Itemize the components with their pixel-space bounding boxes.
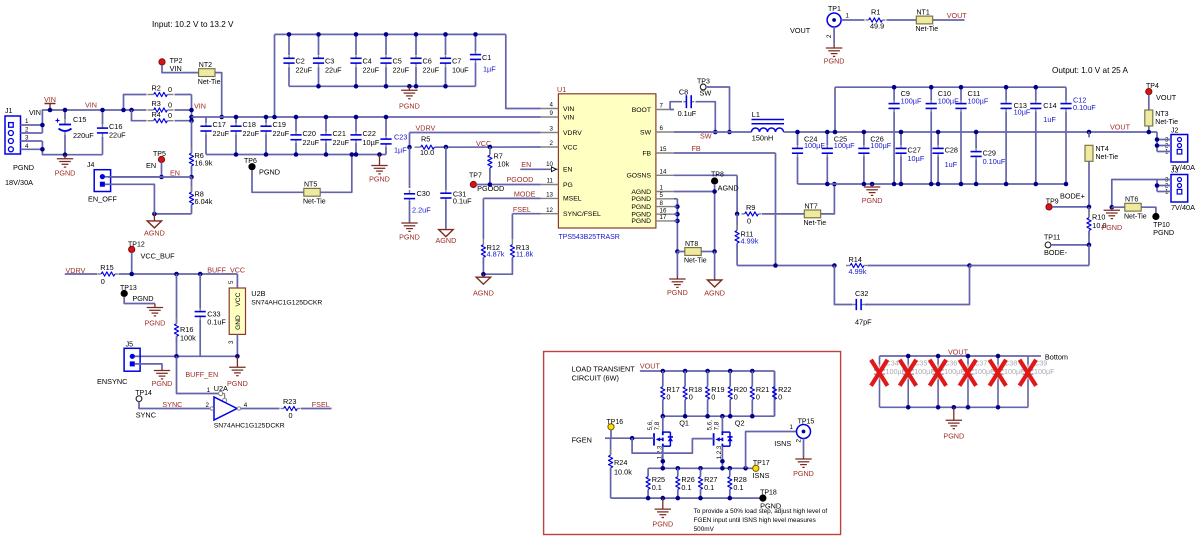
svg-text:VOUT: VOUT <box>947 11 968 20</box>
junction C29 top junction <box>974 130 979 135</box>
junction C10 bottom junction <box>929 182 934 187</box>
svg-text:22uF: 22uF <box>109 131 126 140</box>
wire TP11 wire <box>1051 244 1089 246</box>
junction C35 bottom junction <box>906 405 911 410</box>
wire R15 to BUFF_VCC <box>119 273 238 275</box>
svg-text:22uF: 22uF <box>303 138 320 147</box>
label TP8 name <box>718 184 739 193</box>
svg-text:VOUT: VOUT <box>1156 93 1177 102</box>
resistor R11 <box>735 224 739 249</box>
label net VOUT bottom <box>948 348 969 357</box>
label TP1 name <box>790 26 811 35</box>
wire C11 bottom lead <box>960 112 962 185</box>
label J1 pin 4 <box>25 143 29 150</box>
label U2A ref <box>214 384 228 393</box>
junction C37 bottom junction <box>966 405 971 410</box>
wire VIN top bank riser <box>274 34 276 117</box>
label net MODE <box>514 190 536 199</box>
svg-text:0.1: 0.1 <box>652 483 662 492</box>
label TP6 name <box>259 168 280 177</box>
ground symbol AGND under U1 <box>707 278 721 287</box>
U1 pin 2 VCC <box>541 140 578 151</box>
wire EN wire <box>108 176 192 178</box>
label U2B pin5 number <box>228 280 235 284</box>
label net VOUT at TP1 <box>947 11 968 20</box>
svg-text:22uF: 22uF <box>333 138 350 147</box>
svg-text:100µF: 100µF <box>870 141 891 150</box>
wire R27 top lead <box>700 468 702 476</box>
svg-text:220uF: 220uF <box>73 131 94 140</box>
svg-text:PG: PG <box>563 182 573 189</box>
wire R11 bottom lead <box>736 244 738 266</box>
svg-text:SYNC/FSEL: SYNC/FSEL <box>563 211 601 218</box>
wire C5 bottom lead <box>385 67 387 87</box>
svg-text:0.1: 0.1 <box>681 483 691 492</box>
svg-text:R24: R24 <box>614 458 627 467</box>
resistor R13 <box>510 239 514 264</box>
U1 pin 17 PGND <box>631 214 674 225</box>
svg-text:9: 9 <box>550 110 554 117</box>
junction C18 top junction <box>234 115 239 120</box>
junction NT8 right junction <box>712 249 717 254</box>
capacitor C25 100µF <box>822 145 833 156</box>
junction C22 bottom junction <box>354 152 359 157</box>
junction TP9 junction <box>1087 205 1092 210</box>
wire C2 bottom lead <box>288 67 290 87</box>
svg-text:22uF: 22uF <box>325 66 342 75</box>
junction Q1 source bus junction <box>661 466 666 471</box>
wire TP15 stem <box>803 439 805 458</box>
label TP15 ref <box>798 419 815 426</box>
junction C25 top junction <box>825 130 830 135</box>
label J3 pin1 <box>1165 189 1169 196</box>
capacitor C39 100uF (not installed) <box>1022 356 1055 407</box>
wire J1 pin2 <box>21 132 43 134</box>
svg-text:10k: 10k <box>498 160 510 169</box>
wire NT8 left wire <box>677 251 684 253</box>
ground symbol PGND under J5 <box>154 369 170 379</box>
wire C27 bottom lead <box>900 156 902 184</box>
svg-text:10.0: 10.0 <box>420 148 434 157</box>
label Q2 pins 78 <box>713 421 720 430</box>
svg-text:NT1: NT1 <box>917 9 930 16</box>
junction NT6 left junction <box>1110 205 1115 210</box>
svg-text:TP9: TP9 <box>1046 199 1059 206</box>
wire TP9 wire <box>1052 206 1089 208</box>
svg-text:SW: SW <box>700 132 712 141</box>
wire C23 top lead <box>385 117 387 136</box>
junction TP8 AGND junction <box>712 189 717 194</box>
junction C9 top junction <box>892 85 897 90</box>
junction VCC R7 junction <box>488 145 493 150</box>
resistor R2 <box>148 92 174 96</box>
capacitor C1 1uF <box>470 52 481 63</box>
label Q2 ref <box>735 419 745 428</box>
label TP13 ref <box>120 285 137 292</box>
svg-text:GOSNS: GOSNS <box>626 173 651 180</box>
wire C31 lead bottom <box>445 200 447 229</box>
label TP15 pin1 number <box>790 424 794 431</box>
svg-text:C21: C21 <box>333 129 346 138</box>
wire NT3 to rail <box>1148 126 1150 132</box>
capacitor C23 1uF <box>380 136 391 147</box>
label TP18 name <box>760 501 781 510</box>
resistor R18 <box>683 387 687 400</box>
svg-text:2: 2 <box>206 402 210 409</box>
label AGND U1 text <box>704 289 725 298</box>
wire AGND drop <box>714 252 716 279</box>
not-installed mark X over C39 <box>1020 360 1037 386</box>
svg-text:EN: EN <box>563 167 573 174</box>
wire C21 bottom lead <box>325 143 327 155</box>
label TP10 ref <box>1153 222 1170 229</box>
svg-text:C7: C7 <box>452 57 461 66</box>
ground symbol PGND bottom caps <box>946 407 962 428</box>
label C27 value <box>908 154 925 163</box>
junction C11 bottom junction <box>959 182 964 187</box>
wire C12 top lead <box>1065 87 1067 100</box>
svg-text:PGND: PGND <box>13 163 34 172</box>
not-installed mark X over C37 <box>960 360 977 386</box>
connector J5 <box>124 348 140 371</box>
svg-text:U1: U1 <box>557 85 566 94</box>
ground symbol PGND under top bank <box>401 86 417 98</box>
label R12 value <box>487 250 505 259</box>
svg-text:C17: C17 <box>213 120 226 129</box>
svg-text:PGND: PGND <box>631 196 651 203</box>
wire NT6 left wire <box>1112 206 1125 208</box>
junction R14 C32 right junction <box>967 263 972 268</box>
label C24 value <box>804 141 825 150</box>
label R16 ref <box>180 325 193 334</box>
U1 pin 4 VIN <box>541 102 575 113</box>
wire C24 top lead <box>797 132 799 145</box>
junction C8 SW junction <box>713 130 718 135</box>
label R9 value <box>747 217 751 226</box>
label PGND U1 text <box>667 288 688 297</box>
svg-text:PGND: PGND <box>862 196 883 205</box>
ground symbol PGND under U2B <box>229 356 245 375</box>
wire R16 lead top <box>176 274 178 323</box>
svg-text:1µF: 1µF <box>394 145 407 154</box>
wire C32 loop left <box>834 266 852 305</box>
label net VIN at J1 <box>29 108 41 117</box>
test point TP1 <box>827 13 841 27</box>
svg-text:6.04k: 6.04k <box>195 197 213 206</box>
junction C4 top junction <box>354 32 359 37</box>
svg-text:PGND: PGND <box>145 319 166 328</box>
label J1 PGND <box>13 163 34 172</box>
wire R27 bottom lead <box>700 490 702 499</box>
op-amp U1 TPS543B25TRASR body <box>557 85 656 241</box>
label net BUFF_VCC <box>207 266 245 275</box>
svg-text:SW: SW <box>640 129 652 136</box>
wire C12 bottom lead <box>1065 112 1067 185</box>
wire Q2 gate loop <box>632 438 714 453</box>
wire load PGND bus <box>611 497 763 499</box>
capacitor C33 0.1uF <box>195 309 206 320</box>
svg-text:PGND: PGND <box>1153 228 1174 237</box>
svg-text:2: 2 <box>550 140 554 147</box>
junction NT7 bus junction <box>832 182 837 187</box>
svg-text:C23: C23 <box>394 133 407 142</box>
svg-text:NT5: NT5 <box>304 182 317 189</box>
label J2 pin2 <box>1165 143 1169 150</box>
svg-text:PGND: PGND <box>793 469 814 478</box>
label C1 value <box>483 65 496 74</box>
wire R24 corner <box>610 438 612 455</box>
wire C11 top lead <box>960 87 962 100</box>
wire PGOOD wire <box>477 184 541 186</box>
wire FGEN wire <box>605 437 611 439</box>
junction R26 bottom junction <box>676 496 681 501</box>
connector J1 <box>5 108 21 154</box>
wire C14 bottom lead <box>1035 112 1037 185</box>
resistor R8 <box>189 186 193 211</box>
label C3 ref <box>325 57 334 66</box>
junction C15 top junction <box>63 108 68 113</box>
wire R10 bottom lead <box>1088 231 1090 245</box>
svg-text:1: 1 <box>25 118 29 125</box>
label C30 ref <box>417 189 430 198</box>
junction NT4 rail junction <box>1087 130 1092 135</box>
label J3 ref <box>1171 168 1179 175</box>
label U2A pin4 number <box>244 402 248 409</box>
wire R17 top lead <box>662 371 664 387</box>
label C19 value <box>273 129 290 138</box>
svg-text:PGOOD: PGOOD <box>507 175 534 184</box>
junction TP11 junction <box>1087 243 1092 248</box>
svg-text:VCC: VCC <box>235 292 242 306</box>
junction C22 top junction <box>354 115 359 120</box>
label net PGOOD <box>507 175 534 184</box>
svg-text:500mV: 500mV <box>694 526 715 533</box>
junction C14 bottom junction <box>1034 182 1039 187</box>
svg-text:GND: GND <box>235 315 242 330</box>
wire VIN rail <box>65 109 132 111</box>
wire FSEL corner down <box>511 214 513 239</box>
wire R11 top lead <box>736 214 738 230</box>
label C24 ref <box>804 135 817 144</box>
wire J2 feed <box>1156 132 1158 152</box>
label net VDRV <box>416 123 436 132</box>
ground symbol PGND under U1 <box>669 276 685 287</box>
svg-text:R3: R3 <box>152 99 161 108</box>
U1 pin 11 PG <box>541 178 573 189</box>
svg-text:R4: R4 <box>152 110 161 119</box>
label R21 value <box>756 393 760 402</box>
wire J3 to NT6 <box>1112 180 1157 208</box>
svg-text:4: 4 <box>244 402 248 409</box>
label C17 value <box>213 129 230 138</box>
test point TP17 <box>753 465 759 471</box>
inductor L1 150nH <box>752 120 785 133</box>
label load transient title line1 <box>572 365 636 374</box>
label TP8 ref <box>711 172 724 179</box>
wire J2 pin2 wire <box>1157 145 1171 147</box>
resistor R24 <box>609 449 613 474</box>
junction C21 bottom junction <box>324 152 329 157</box>
junction VIN flag junction <box>48 108 53 113</box>
svg-text:0: 0 <box>747 217 751 226</box>
svg-text:100µF: 100µF <box>968 97 989 106</box>
label R27 value <box>704 483 714 492</box>
wire PGND drop <box>676 252 678 277</box>
wire R21 top lead <box>751 371 753 387</box>
label C8 ref <box>679 88 688 97</box>
ground symbol AGND under R8 <box>147 214 161 228</box>
wire Q1 drain lead <box>662 416 664 432</box>
wire FB riser <box>775 153 777 266</box>
capacitor C34 100uF (not installed) <box>874 356 907 407</box>
junction VDRV R5 junction <box>407 145 412 150</box>
wire FGEN to Q1 gate <box>611 437 654 439</box>
wire BODE to FB <box>1088 245 1090 266</box>
wire C22 top lead <box>355 117 357 132</box>
resistor R17 <box>661 387 665 400</box>
junction NT2 junction <box>219 115 224 120</box>
wire R22 bottom lead <box>774 400 776 417</box>
wire C26 top lead <box>863 132 865 145</box>
net-tie NT5 <box>303 182 326 206</box>
label L1 value <box>752 134 774 143</box>
wire R4 branch <box>132 110 147 121</box>
wire R18 top lead <box>684 371 686 387</box>
label PGND bottom text <box>943 432 964 441</box>
capacitor C3 22uF <box>313 55 324 66</box>
label R6 ref <box>195 151 204 160</box>
connector J3 <box>1171 175 1188 203</box>
label R23 ref <box>283 397 296 406</box>
label U2A part <box>214 423 285 430</box>
label R10 value <box>1092 221 1106 230</box>
svg-text:TP15: TP15 <box>798 419 815 426</box>
wire R17 bottom lead <box>662 400 664 417</box>
svg-text:MODE: MODE <box>514 190 536 199</box>
label TP7 ref <box>469 173 482 180</box>
label C29 value <box>983 157 1006 166</box>
svg-text:Net-Tie: Net-Tie <box>684 258 707 265</box>
wire FB bus <box>737 265 834 267</box>
svg-text:AGND: AGND <box>631 189 651 196</box>
label U2A pin1 number <box>207 387 211 394</box>
test point TP16 <box>608 424 614 430</box>
svg-text:10µF: 10µF <box>908 154 925 163</box>
label R25 ref <box>652 475 665 484</box>
svg-text:3: 3 <box>228 340 235 344</box>
svg-text:TP14: TP14 <box>135 390 152 397</box>
ground symbol PGND under TP1 <box>826 45 842 56</box>
svg-text:Net-Tie: Net-Tie <box>1155 119 1178 126</box>
svg-text:R2: R2 <box>152 84 161 93</box>
junction C19 top junction <box>264 115 269 120</box>
svg-text:TP1: TP1 <box>828 6 841 13</box>
U1 pin 8 PGND <box>631 200 674 211</box>
svg-text:TP17: TP17 <box>753 460 770 467</box>
label R4 value <box>168 111 172 120</box>
label TP1 pin1 number <box>846 13 850 20</box>
wire R20 top lead <box>729 371 731 387</box>
label R7 ref <box>494 152 503 161</box>
label J4 name <box>88 195 117 204</box>
wire C6 bottom lead <box>415 67 417 87</box>
junction C16 top junction <box>100 108 105 113</box>
junction R19 top junction <box>705 369 710 374</box>
wire MODE wire <box>483 197 540 199</box>
label PGND TP13 text <box>145 319 166 328</box>
wire C15 bottom lead <box>64 135 66 155</box>
junction PGND top bank junction <box>407 84 412 89</box>
junction C24 rail junction <box>795 130 800 135</box>
wire BOOT riser <box>670 102 682 110</box>
svg-text:7,8: 7,8 <box>713 421 720 430</box>
junction U2B pin3 junction <box>235 354 240 359</box>
capacitor C17 22uF <box>200 123 211 134</box>
svg-text:C14: C14 <box>1043 101 1056 110</box>
wire BUFF_VCC corner to U2B <box>236 274 238 288</box>
wire R21 bottom lead <box>751 400 753 417</box>
wire R25 bottom lead <box>647 490 649 499</box>
test point TP6 <box>249 164 255 170</box>
label PGND load text <box>652 520 673 529</box>
svg-text:100µF: 100µF <box>974 367 995 376</box>
svg-text:PGND: PGND <box>631 218 651 225</box>
svg-text:VIN: VIN <box>85 101 97 110</box>
svg-text:FGEN input until ISNS high lev: FGEN input until ISNS high level measure… <box>694 517 816 524</box>
wire R19 bottom lead <box>707 400 709 417</box>
label C23 value <box>394 145 407 154</box>
junction C38 top junction <box>996 354 1001 359</box>
svg-text:0: 0 <box>101 277 105 286</box>
test point TP5 <box>158 156 164 162</box>
wire BUFF_EN wire <box>177 356 219 393</box>
label PGND row2 text <box>369 175 390 184</box>
svg-text:0: 0 <box>168 111 172 120</box>
svg-text:J2: J2 <box>1171 128 1179 135</box>
label R21 ref <box>756 385 769 394</box>
label Q1 pins 78 <box>654 421 661 430</box>
label C21 ref <box>333 129 346 138</box>
capacitor C31 0.1uF <box>440 190 451 201</box>
svg-text:1uF: 1uF <box>1043 115 1056 124</box>
svg-text:AGND: AGND <box>436 236 457 245</box>
connector J4 <box>94 170 110 192</box>
svg-text:U2A: U2A <box>214 384 228 393</box>
label C7 ref <box>452 57 461 66</box>
wire PGND top bus <box>289 85 476 87</box>
wire C29 bottom lead <box>975 160 977 185</box>
junction R28 bottom junction <box>728 496 733 501</box>
svg-text:PGND: PGND <box>55 169 76 178</box>
junction C20 bottom junction <box>294 152 299 157</box>
svg-text:To provide a 50% load step, ad: To provide a 50% load step, adjust high … <box>694 508 828 515</box>
svg-text:FB: FB <box>692 144 701 153</box>
wire SW wire <box>674 131 752 133</box>
junction R21 top junction <box>750 369 755 374</box>
svg-text:C32: C32 <box>855 289 868 298</box>
junction TP3 SW junction <box>727 130 732 135</box>
buffer U2B SN74AHC1G125DCKR <box>229 288 245 334</box>
svg-text:10.0k: 10.0k <box>614 468 632 477</box>
junction VIN bus corner junction <box>189 115 194 120</box>
wire R25 top lead <box>647 468 649 476</box>
test point TP12 <box>129 246 135 252</box>
svg-text:PGND: PGND <box>259 168 280 177</box>
label C13 value <box>1014 108 1031 117</box>
capacitor C21 22uF <box>320 132 331 143</box>
wire C4 bottom lead <box>355 67 357 87</box>
label load note line3 <box>694 526 715 533</box>
